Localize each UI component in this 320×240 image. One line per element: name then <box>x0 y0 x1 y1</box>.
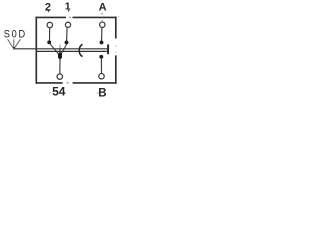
svg-text:2: 2 <box>45 1 51 13</box>
svg-text:D: D <box>19 29 26 41</box>
svg-text:54: 54 <box>52 84 66 98</box>
svg-text:B: B <box>98 88 106 100</box>
svg-text:A: A <box>99 1 107 13</box>
svg-text:0: 0 <box>12 29 17 41</box>
svg-text:S: S <box>4 29 10 41</box>
svg-text:1: 1 <box>65 0 71 12</box>
